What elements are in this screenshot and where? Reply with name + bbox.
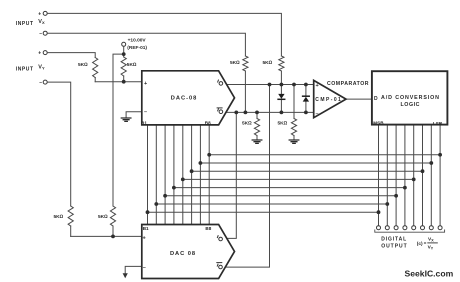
label Io-bar lower DAC [216,263,222,269]
terminal Vy- [43,80,47,84]
resistor R2 5K (REF to DAC1 +) [121,57,126,76]
node dot staircase B1 [146,210,150,214]
terminal digital out 2 [385,226,389,230]
svg-text:5KΩ: 5KΩ [78,62,88,68]
svg-text:DIGITAL: DIGITAL [381,236,406,242]
svg-text:+10.00V: +10.00V [128,37,147,43]
wire staircase B7 [200,162,431,164]
resistor R5 5K (Vy- leg) [68,206,73,226]
label INPUT Vx [16,11,45,37]
node dot REF junction [122,52,126,56]
node dot pin4 [403,186,407,190]
node dot pin5 [412,178,416,182]
ground G2 arrow (DAC2 minus) [123,273,128,278]
wire staircase B6 [192,170,423,172]
svg-text:+: + [144,81,147,87]
svg-text:(REF-01): (REF-01) [127,45,147,51]
svg-text:VY: VY [38,64,45,70]
wire R7 to ground [256,136,258,140]
wire staircase B4 [174,187,405,189]
node dot +rail Iobar2 [268,83,272,87]
node dot staircase B2 [154,202,158,206]
diode D2 (anode -rail, cathode +rail) [303,85,310,113]
wire DAC2 - input to ground [125,266,142,273]
wire DAC1 - input to ground [126,112,142,118]
op-amp U1 DAC-08 upper outline [142,71,235,125]
node dot -rail R7 [255,111,259,115]
wire DAC2 Io up to -rail [227,112,237,238]
node dot pin8 LSB [438,153,442,157]
node dot -rail D2 bottom [304,111,308,115]
node dot -rail R4 [244,111,248,115]
svg-text:+: + [143,235,146,241]
label Io upper DAC [218,80,223,86]
ground G1 (DAC1 minus) [121,118,131,121]
label +10.00V (REF-01) [127,37,147,51]
svg-text:–: – [39,31,42,37]
wire +rail (DAC1 Io to comparator +) [227,84,314,86]
wire A/D pin5 vertical [413,125,415,226]
wire Vy- down to resistor R5 [47,82,70,206]
node dot +rail D2 [304,83,308,87]
svg-text:5KΩ: 5KΩ [278,121,288,127]
wire staircase B1-MSB [148,211,379,213]
wire bus B7 vertical [199,125,201,225]
terminal Vy+ [43,51,47,55]
bracket under digital outputs [375,230,445,232]
label digital output formula [381,236,438,250]
svg-text:5KΩ: 5KΩ [263,60,273,66]
node dot +rail R3 [280,83,284,87]
terminal digital out 3 [394,226,398,230]
svg-text:5KΩ: 5KΩ [230,60,240,66]
A/D conversion logic box U4 [372,71,448,124]
terminal digital out 1 [377,226,381,230]
wire DAC2 + input line [71,235,142,237]
terminal REF-01 +10.00V [122,42,126,46]
svg-text:OUTPUT: OUTPUT [381,244,407,250]
wire Vx+ to resistor R3 [47,13,281,56]
node dot staircase B3 [163,194,167,198]
svg-text:D: D [374,96,378,102]
wire A/D pin2 vertical [386,125,388,226]
svg-text:–: – [39,80,42,86]
wire DAC2 Io-bar up to +rail [225,85,269,268]
svg-text:MSB: MSB [373,121,384,126]
ground G4 [289,140,299,143]
terminal Vx+ [43,11,47,15]
svg-text:5KΩ: 5KΩ [54,214,64,220]
wire R6 bottom to DAC2 + node [112,226,114,236]
svg-text:B8: B8 [205,226,211,231]
svg-text:VX: VX [428,237,434,243]
wire Vx- to resistor R4 [47,33,245,56]
svg-text:LSB: LSB [433,121,443,126]
label comparator [315,81,368,118]
wire Vy+ to resistor R1 [47,53,95,58]
node dot pin6 [421,169,425,173]
svg-text:–: – [316,112,319,118]
wire bus B3 vertical [164,125,166,225]
svg-text:5KΩ: 5KΩ [242,121,252,127]
node dot staircase B5 [181,178,185,182]
svg-text:VX: VX [38,19,45,25]
node dot -rail D1 [280,111,284,115]
wire A/D pin7 vertical [430,125,432,226]
wire bus B1 vertical (DAC1 to DAC2) [147,125,149,225]
node dot pin MSB [377,210,381,214]
op-amp U3 comparator CMP-01 outline [314,80,346,117]
node dot staircase B4 [172,186,176,190]
label Io-bar upper DAC [217,108,223,114]
wire A/D pin1 MSB vertical [378,125,380,226]
svg-text:VY: VY [428,245,434,251]
svg-text:+: + [38,51,41,57]
svg-text:INPUT: INPUT [16,21,33,27]
svg-text:–: – [143,265,146,271]
wire A/D pin3 vertical [395,125,397,226]
svg-text:+: + [38,11,41,17]
svg-text:INPUT: INPUT [16,66,33,72]
resistor R6 5K (REF to DAC2 +) [110,206,115,226]
node dot DAC1 plus node [122,80,126,84]
resistor R8 5K (plus rail to gnd) [291,119,296,136]
wire comparator output to A/D logic [346,98,372,100]
terminal digital out 8 [438,226,442,230]
wire staircase B3 [165,195,396,197]
wire DAC1 + input line [95,81,142,83]
wire bus B4 vertical [173,125,175,225]
wire bus B5 vertical [182,125,184,225]
svg-text:5KΩ: 5KΩ [127,62,137,68]
node dot pin7 [429,161,433,165]
wire bus B6 vertical [191,125,193,225]
node dot pin2 [385,202,389,206]
wire staircase B5 [183,178,414,180]
node dot DAC2 plus node [111,235,115,239]
svg-text:5KΩ: 5KΩ [98,214,108,220]
terminal Vx- [43,31,47,35]
wire bus B2 vertical [155,125,157,225]
svg-text:COMPARATOR: COMPARATOR [327,81,369,87]
svg-text:LOGIC: LOGIC [401,102,420,108]
node dot staircase B8 [207,153,211,157]
svg-text:DAC 08: DAC 08 [170,251,195,257]
wire R2 bottom to DAC1 + node [123,76,125,82]
node dot staircase B6 [190,169,194,173]
svg-text:=: = [424,241,427,246]
wire staircase B2 [156,203,387,205]
svg-text:B1: B1 [143,226,149,231]
wire -rail (DAC1 Io-bar to comparator -) [226,111,314,113]
svg-text:DAC-08: DAC-08 [171,96,197,102]
resistor R3 5K (Vx+ leg) [279,56,284,71]
label Io lower DAC [217,235,222,241]
wire R1 bottom to DAC1 + node [94,78,96,82]
ground G3 [252,140,262,143]
wire bus B8 vertical [208,125,210,225]
wire +rail to R8 ground leg (crosses -rail) [293,85,295,119]
svg-text:+: + [316,83,319,89]
label DAC 08 lower [143,226,212,271]
node dot +rail R8 [292,83,296,87]
wire R4 bottom to -rail (crosses +rail) [244,71,246,112]
op-amp U2 DAC-08 lower outline [142,225,235,279]
wire REF node branch down to R6 [113,54,124,206]
wire R8 to ground [293,136,295,140]
resistor R4 5K (Vx- leg) [243,56,248,71]
wire REF terminal to node [123,47,125,57]
label A/D conversion logic [373,95,443,126]
wire R5 bottom to DAC2 + line [70,226,72,236]
wire -rail to R7 ground leg [256,112,258,118]
svg-text:SeekIC.com: SeekIC.com [405,268,454,278]
wire A/D pin6 vertical [422,125,424,226]
label INPUT Vy [16,51,45,86]
node dot pin3 [394,194,398,198]
node dot staircase B7 [199,161,203,165]
svg-text:–: – [144,110,147,116]
terminal digital out 6 [421,226,425,230]
resistor R1 5K (Vy+ leg) [93,58,98,78]
node dot -rail Io2 [234,111,238,115]
svg-text:(c): (c) [417,241,423,247]
wire A/D pin4 vertical [404,125,406,226]
terminal digital out 4 [403,226,407,230]
wire staircase B8-LSB [209,154,440,156]
diode D1 (anode +rail, cathode -rail) [278,85,285,113]
terminal digital out 7 [429,226,433,230]
svg-text:B1: B1 [141,120,147,125]
wire R3 bottom to +rail [280,71,282,85]
svg-text:A/D CONVERSION: A/D CONVERSION [381,95,439,101]
resistor R7 5K (minus rail to gnd) [254,119,259,136]
terminal digital out 5 [412,226,416,230]
wire A/D pin8 LSB vertical [439,125,441,226]
svg-text:B8: B8 [205,120,211,125]
label DAC-08 upper [141,81,211,125]
